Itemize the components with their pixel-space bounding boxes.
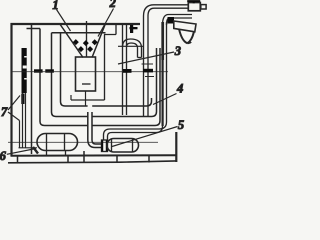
cabinet top edge bbox=[11, 23, 141, 25]
inner wall 3 bbox=[61, 33, 88, 106]
hopper center stem bbox=[86, 21, 88, 58]
sump bottom right 3 bbox=[92, 48, 160, 126]
svg-text:4: 4 bbox=[176, 82, 183, 96]
valve handle stem bbox=[193, 1, 195, 4]
sump bottom right 1 bbox=[92, 98, 151, 106]
chamber inner right wall bbox=[104, 35, 106, 101]
left pump bbox=[37, 134, 78, 151]
svg-text:7: 7 bbox=[1, 105, 8, 119]
leg 5 bbox=[148, 156, 150, 163]
pipe B horizontal bbox=[169, 14, 193, 16]
abrasive diamond 2 bbox=[83, 40, 89, 46]
abrasive diamond 1 bbox=[73, 39, 79, 45]
workpiece box bbox=[76, 57, 96, 91]
pipe B riser thick bbox=[161, 22, 164, 60]
svg-text:6: 6 bbox=[0, 149, 7, 163]
pipe A elbow bbox=[144, 5, 189, 16]
leader 7 lower bbox=[8, 112, 20, 121]
leader 3 bbox=[118, 52, 174, 64]
pipe B elbow top bbox=[163, 15, 169, 26]
inner tank left wall bbox=[31, 23, 33, 154]
valve handle bar bbox=[187, 0, 200, 2]
right pump bbox=[107, 139, 139, 153]
pump mount block bbox=[33, 147, 38, 154]
leader 2 bbox=[98, 9, 114, 37]
gauge tube 1 bbox=[40, 29, 88, 126]
workpiece box inner dash bbox=[82, 83, 91, 85]
pipe B bottom elbow bbox=[104, 122, 167, 140]
flange tick loop pipe bbox=[123, 69, 132, 73]
leader 7 upper bbox=[8, 96, 20, 111]
chamber ceiling line bbox=[118, 45, 144, 47]
valve body bbox=[188, 3, 200, 11]
glove cuff bbox=[174, 21, 196, 32]
inner shelf line bbox=[52, 32, 106, 34]
svg-text:5: 5 bbox=[178, 118, 184, 132]
ground line bbox=[8, 161, 177, 163]
chamber ceiling step bbox=[104, 24, 116, 35]
svg-text:2: 2 bbox=[109, 0, 116, 10]
thermometer lower segment bbox=[21, 94, 24, 105]
hopper right wall bbox=[92, 24, 106, 58]
leg 2 bbox=[67, 156, 69, 163]
drain pipe bbox=[88, 112, 102, 148]
glove pouch left bbox=[179, 29, 187, 43]
pump centerline bbox=[8, 141, 158, 143]
glove pouch right bbox=[187, 32, 194, 43]
glove fitting bbox=[168, 17, 175, 24]
tube footer line bbox=[19, 147, 38, 149]
gauge tube 2 bbox=[52, 33, 88, 117]
inner hood ledge 1 bbox=[27, 28, 41, 30]
drop pipe from box bbox=[85, 91, 87, 107]
leader 6 bbox=[7, 149, 36, 155]
innermost bottom line bbox=[71, 95, 105, 100]
cabinet bottom bbox=[11, 154, 177, 157]
leader 1 bbox=[57, 10, 71, 32]
svg-text:3: 3 bbox=[174, 44, 181, 58]
leg 1 bbox=[17, 156, 19, 163]
small bracket line right bbox=[142, 63, 154, 65]
centerline bbox=[12, 71, 168, 73]
small dash right bbox=[145, 76, 154, 78]
abrasive diamond 3 bbox=[92, 39, 98, 45]
hopper left wall bbox=[60, 24, 84, 58]
glove pouch tip bbox=[187, 42, 191, 43]
right wall bottom bbox=[175, 132, 177, 162]
valve outlet nub bbox=[201, 5, 206, 9]
leg 4 bbox=[116, 156, 118, 163]
drain connector bbox=[102, 140, 108, 152]
thermometer black bar bbox=[22, 48, 27, 93]
spray loop pipe bbox=[122, 24, 124, 115]
leader 5 bbox=[112, 127, 178, 147]
sump bottom right 2 bbox=[92, 48, 156, 117]
cabinet outer left wall bbox=[10, 23, 12, 156]
leg 3 bbox=[83, 151, 85, 163]
flange tick pipe A bbox=[143, 69, 153, 73]
leader 4 bbox=[153, 94, 177, 105]
flange tick tube1 bbox=[34, 69, 43, 72]
pipe A riser bbox=[143, 16, 145, 117]
thermometer tubes below bbox=[23, 93, 26, 148]
bracket stub bbox=[130, 27, 138, 29]
svg-text:1: 1 bbox=[52, 0, 58, 12]
abrasive diamond 4 bbox=[78, 46, 84, 52]
abrasive diamond 5 bbox=[87, 46, 93, 52]
flange tick tube2 bbox=[45, 69, 54, 72]
extra tube bbox=[19, 121, 21, 148]
